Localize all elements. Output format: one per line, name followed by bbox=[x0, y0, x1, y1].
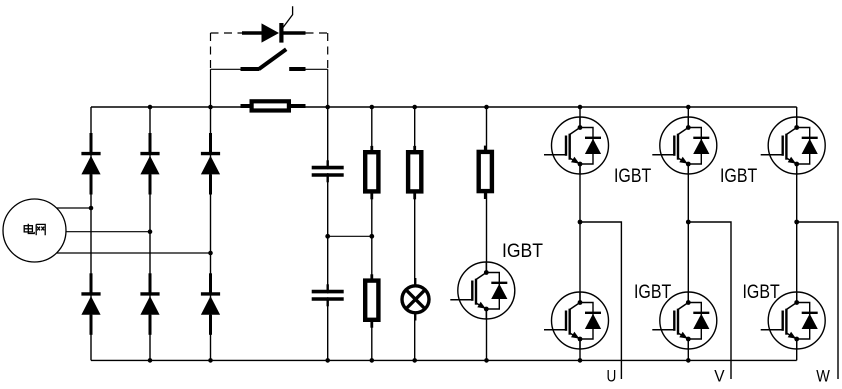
svg-text:U: U bbox=[607, 367, 617, 385]
diode D1 bbox=[81, 133, 100, 195]
node V midpoint bbox=[686, 220, 691, 225]
wire rectifier leg 1 bbox=[90, 107, 92, 360]
IGBT V3 upper U bbox=[544, 117, 609, 174]
IGBT V2 brake chopper bbox=[450, 262, 515, 319]
node U midpoint bbox=[578, 220, 583, 225]
wire output W bbox=[797, 222, 838, 379]
node phase B junction bbox=[148, 229, 153, 234]
node phase A junction bbox=[89, 206, 94, 211]
node phase C junction bbox=[208, 251, 213, 256]
IGBT V5 upper W bbox=[761, 117, 826, 174]
wire output V bbox=[688, 222, 731, 379]
wire brake chopper leg bbox=[486, 107, 488, 360]
diode D5 bbox=[140, 273, 159, 335]
wire inverter leg W bbox=[796, 107, 798, 360]
thyristor V1 bbox=[242, 6, 306, 42]
node top bus junctions bbox=[148, 105, 691, 110]
node capacitor midpoint junctions bbox=[325, 234, 374, 239]
resistor R4 bbox=[408, 146, 421, 199]
wire bleeder resistor leg bbox=[371, 107, 373, 360]
svg-text:V: V bbox=[714, 367, 724, 385]
wire inverter leg V bbox=[687, 107, 689, 360]
resistor R5 chopper bbox=[479, 146, 492, 199]
svg-text:IGBT: IGBT bbox=[634, 281, 671, 303]
wire dashed thyristor branch right bbox=[306, 32, 328, 34]
diode D6 bbox=[201, 273, 220, 335]
IGBT V6 lower U bbox=[544, 292, 609, 349]
svg-text:IGBT: IGBT bbox=[614, 165, 651, 187]
IGBT V7 lower V bbox=[652, 292, 717, 349]
diode D4 bbox=[81, 273, 100, 335]
wire phase B bbox=[66, 231, 150, 233]
wire phase C bbox=[57, 252, 211, 254]
lamp HL bbox=[402, 278, 429, 321]
wire inverter leg U bbox=[579, 107, 581, 360]
IGBT V8 lower W bbox=[761, 292, 826, 349]
wire dashed thyristor branch left bbox=[211, 32, 244, 34]
wire phase A bbox=[57, 207, 92, 209]
wire bottom DC bus bbox=[91, 359, 797, 361]
svg-text:IGBT: IGBT bbox=[743, 281, 780, 303]
resistor R1 charging bbox=[241, 101, 306, 110]
diode D2 bbox=[140, 133, 159, 195]
svg-text:IGBT: IGBT bbox=[502, 240, 543, 262]
IGBT V4 upper V bbox=[652, 117, 717, 174]
switch S1 bbox=[211, 49, 328, 69]
resistor R3 bbox=[365, 274, 378, 327]
node W midpoint bbox=[794, 220, 799, 225]
capacitor C2 bbox=[312, 284, 344, 306]
node bottom bus junctions bbox=[148, 358, 691, 363]
wire output U bbox=[580, 222, 621, 379]
wire indicator leg bbox=[414, 107, 416, 360]
wire DC-link capacitor leg bbox=[327, 107, 329, 360]
AC source 电网 bbox=[3, 199, 66, 262]
wire bypass box right vertical bbox=[327, 33, 329, 107]
wire capacitor midpoint link bbox=[328, 235, 372, 237]
svg-text:IGBT: IGBT bbox=[720, 165, 757, 187]
capacitor C1 bbox=[312, 160, 344, 182]
wire rectifier leg 3 bbox=[210, 107, 212, 360]
wire top DC bus bbox=[91, 106, 797, 108]
svg-text:W: W bbox=[816, 367, 830, 385]
wire bypass box left vertical bbox=[210, 33, 212, 107]
diode D3 bbox=[201, 133, 220, 195]
wire rectifier leg 2 bbox=[149, 107, 151, 360]
resistor R2 bbox=[365, 146, 378, 199]
